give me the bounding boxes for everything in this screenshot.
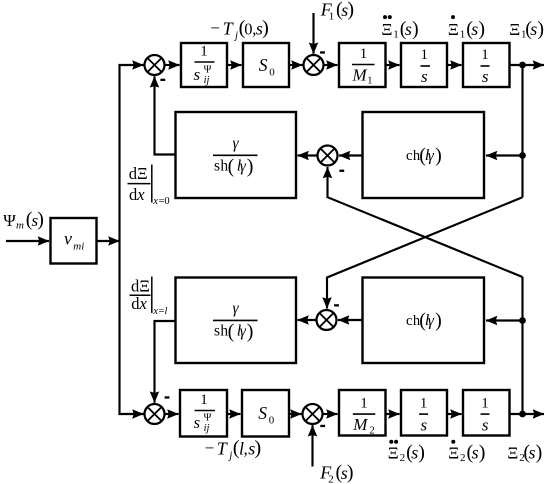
block S_0 (top) xyxy=(243,43,289,87)
svg-text:sh: sh xyxy=(214,323,229,340)
svg-text:1: 1 xyxy=(460,29,466,41)
label Psi_m(s) xyxy=(3,209,44,232)
svg-text:): ) xyxy=(536,442,543,464)
svg-text:s: s xyxy=(411,443,418,463)
wire ch upper output to summing junction B xyxy=(339,154,363,156)
block gamma/sh(l gamma) (upper) xyxy=(176,112,297,198)
label dXi/dx at x=l xyxy=(130,276,168,317)
svg-text:T: T xyxy=(223,18,235,38)
label F_2(s) xyxy=(319,462,353,484)
summing junction D xyxy=(145,404,165,424)
label Xi_1(s) xyxy=(509,18,544,41)
svg-text:(: ( xyxy=(228,155,235,177)
svg-text:dx: dx xyxy=(131,294,147,313)
svg-text:Ξ: Ξ xyxy=(509,20,520,39)
block gamma/sh(l gamma) (lower) xyxy=(176,278,297,364)
wire gamma/sh lower output to D (feedback down) xyxy=(155,321,176,403)
summing junction C xyxy=(317,310,337,330)
svg-text:γ: γ xyxy=(240,158,247,175)
wire B to gamma/sh upper input xyxy=(298,154,318,156)
wire C to gamma/sh lower input xyxy=(298,319,317,321)
block S_0 (bottom) xyxy=(242,390,289,437)
svg-text:−: − xyxy=(210,19,220,38)
svg-text:dΞ: dΞ xyxy=(129,164,148,183)
wire gamma/sh upper output to A (feedback) xyxy=(155,76,176,154)
wire S_0 to summing junction E xyxy=(289,413,302,415)
svg-text:): ) xyxy=(418,442,425,464)
label F_1(s) xyxy=(320,0,354,22)
svg-text:1: 1 xyxy=(481,47,489,63)
label Xi..2(s) xyxy=(388,440,425,464)
svg-text:1: 1 xyxy=(421,47,429,63)
summing junction A xyxy=(145,55,165,75)
wire left trunk vertical xyxy=(118,64,120,415)
wire output Xi_1 xyxy=(510,64,545,66)
wire 1/s_ij to S_0 top xyxy=(227,64,242,66)
svg-text:Ψ: Ψ xyxy=(3,211,16,230)
svg-text:0: 0 xyxy=(269,415,275,427)
svg-text:ν: ν xyxy=(64,228,72,248)
svg-text:s: s xyxy=(530,19,537,39)
svg-text:2: 2 xyxy=(370,426,375,437)
svg-text:): ) xyxy=(537,18,544,40)
svg-text:2: 2 xyxy=(400,452,406,464)
wire A to 1/s_ij top xyxy=(164,64,179,66)
svg-text:s: s xyxy=(471,19,478,39)
summing junction B xyxy=(318,146,338,166)
svg-text:): ) xyxy=(347,0,354,21)
block 1/M_2 xyxy=(339,390,386,437)
wire right trunk lower: up from output 2 xyxy=(521,277,523,414)
svg-text:): ) xyxy=(262,17,269,39)
svg-text:M: M xyxy=(352,65,368,84)
svg-text:1: 1 xyxy=(393,29,399,41)
svg-text:1: 1 xyxy=(481,396,489,412)
svg-text:=0: =0 xyxy=(159,196,170,207)
label Xi.1(s) xyxy=(448,15,485,40)
svg-text:γ: γ xyxy=(232,300,239,317)
svg-text:): ) xyxy=(37,209,44,231)
svg-text:S: S xyxy=(258,403,267,423)
svg-text:1: 1 xyxy=(200,43,208,59)
svg-text:S: S xyxy=(259,55,268,75)
svg-text:s: s xyxy=(420,416,427,435)
svg-text:mi: mi xyxy=(73,240,84,252)
node dot output 2 xyxy=(519,411,526,418)
svg-text:1: 1 xyxy=(200,392,208,408)
node dot ch upper tap xyxy=(519,152,526,159)
svg-text:x: x xyxy=(152,196,158,207)
wire 1/M_2 to 1/s xyxy=(386,413,400,415)
label Xi..1(s) xyxy=(382,15,419,40)
svg-text:Ξ: Ξ xyxy=(448,444,459,463)
label -T_j(0,s) xyxy=(210,17,268,41)
minus sign at junction E xyxy=(320,425,325,427)
wire F1 input arrow xyxy=(312,13,314,54)
svg-text:s: s xyxy=(421,67,428,86)
block 1/s (top a) xyxy=(401,43,447,87)
wire E to 1/M_2 xyxy=(322,413,337,415)
svg-text:j: j xyxy=(233,29,238,41)
svg-text:,: , xyxy=(244,439,248,458)
svg-text:s: s xyxy=(405,19,412,39)
svg-text:): ) xyxy=(347,462,354,484)
summing junction E xyxy=(303,404,323,424)
minus sign at junction B xyxy=(339,170,344,172)
svg-text:γ: γ xyxy=(232,135,239,152)
svg-text:1: 1 xyxy=(329,10,335,22)
block 1/s_ij^Psi (bottom) xyxy=(180,390,227,437)
svg-text:m: m xyxy=(16,220,24,232)
svg-text:γ: γ xyxy=(428,147,435,164)
svg-text:j: j xyxy=(227,449,232,461)
svg-text:1: 1 xyxy=(367,75,372,86)
block 1/s (bottom b) xyxy=(463,390,510,436)
svg-text:): ) xyxy=(247,155,254,177)
svg-text:): ) xyxy=(247,321,254,343)
minus sign at junction C xyxy=(334,304,339,306)
wire trunk to summing junction A xyxy=(119,64,144,66)
svg-text:Ξ: Ξ xyxy=(388,444,399,463)
svg-text:1: 1 xyxy=(420,396,428,412)
wire input arrow into nu_mi xyxy=(6,240,49,242)
label Xi_2(s) xyxy=(507,442,542,465)
wire ch lower output to summing junction C xyxy=(338,319,363,321)
node dot ch lower tap xyxy=(519,317,526,324)
svg-text:): ) xyxy=(435,144,442,166)
svg-text:l: l xyxy=(165,306,168,317)
svg-text:M: M xyxy=(352,415,368,434)
svg-text:sh: sh xyxy=(214,158,229,175)
wire right trunk upper: down from output 1 to diagonal start xyxy=(521,65,523,197)
wire 1/M_1 to 1/s xyxy=(386,64,400,66)
wire 1/s to 1/s bottom xyxy=(447,413,462,415)
svg-text:T: T xyxy=(217,438,229,458)
svg-text:s: s xyxy=(482,416,489,435)
svg-text:s: s xyxy=(472,443,479,463)
svg-text:s: s xyxy=(529,443,536,463)
wire F2 input arrow xyxy=(311,425,313,466)
svg-text:Ξ: Ξ xyxy=(448,20,459,39)
svg-text:1: 1 xyxy=(360,46,368,62)
svg-text:): ) xyxy=(435,310,442,332)
block 1/s_ij^Psi (top) xyxy=(181,43,227,87)
block 1/s (top b) xyxy=(463,43,510,87)
minus sign at junction D xyxy=(165,396,170,398)
wire diagonal Xi2 to B (vertical rise into B) xyxy=(328,167,523,277)
svg-text:Ξ: Ξ xyxy=(507,444,518,463)
svg-text:ij: ij xyxy=(204,423,210,434)
wire tap to ch upper input xyxy=(486,154,523,156)
wire diagonal Xi1 to lower sum C xyxy=(327,197,523,308)
label -T_j(l,s) xyxy=(205,437,262,461)
svg-text:s: s xyxy=(482,67,489,86)
minus sign at junction A xyxy=(160,79,165,81)
wire F1 junction to 1/M_1 xyxy=(323,64,337,66)
wire output Xi_2 xyxy=(510,413,545,415)
svg-text:Ψ: Ψ xyxy=(204,64,212,75)
svg-text:2: 2 xyxy=(328,473,334,484)
svg-text:2: 2 xyxy=(460,452,466,464)
svg-text:0: 0 xyxy=(269,67,275,79)
svg-text:s: s xyxy=(194,65,201,84)
block 1/M_1 xyxy=(339,43,386,87)
wire D to 1/s_ij bottom xyxy=(164,413,178,415)
svg-text:x: x xyxy=(152,306,158,317)
svg-text:Ξ: Ξ xyxy=(382,20,393,39)
block 1/s (bottom a) xyxy=(401,390,447,436)
wire tap to ch lower input xyxy=(486,319,523,321)
wire S_0 to summing junction F1 xyxy=(289,64,303,66)
svg-text:): ) xyxy=(479,442,486,464)
node dot output 1 xyxy=(519,62,526,69)
wire 1/s_ij to S_0 bottom xyxy=(227,413,241,415)
svg-text:γ: γ xyxy=(240,323,247,340)
svg-text:γ: γ xyxy=(428,313,435,330)
wire 1/s to 1/s top xyxy=(447,64,462,66)
summing junction F1 xyxy=(304,55,324,75)
wire nu_mi output to left trunk xyxy=(97,240,120,242)
svg-text:dΞ: dΞ xyxy=(131,276,150,295)
svg-text:s: s xyxy=(194,413,201,432)
label dXi/dx at x=0 xyxy=(128,164,170,207)
block nu_mi xyxy=(51,218,97,264)
svg-text:): ) xyxy=(412,18,419,40)
wire trunk to summing junction D xyxy=(119,413,144,415)
svg-text:(: ( xyxy=(228,321,235,343)
minus sign at junction F1 xyxy=(320,51,325,53)
svg-text:Ψ: Ψ xyxy=(204,412,212,423)
block ch(l gamma) (upper) xyxy=(363,112,485,198)
block ch(l gamma) (lower) xyxy=(363,278,485,364)
svg-text:−: − xyxy=(205,439,215,458)
svg-text:ij: ij xyxy=(204,75,210,86)
label Xi.2(s) xyxy=(448,440,485,464)
svg-text:dx: dx xyxy=(129,185,145,204)
svg-text:): ) xyxy=(254,437,261,459)
svg-text:1: 1 xyxy=(360,395,368,411)
svg-text:): ) xyxy=(478,18,485,40)
